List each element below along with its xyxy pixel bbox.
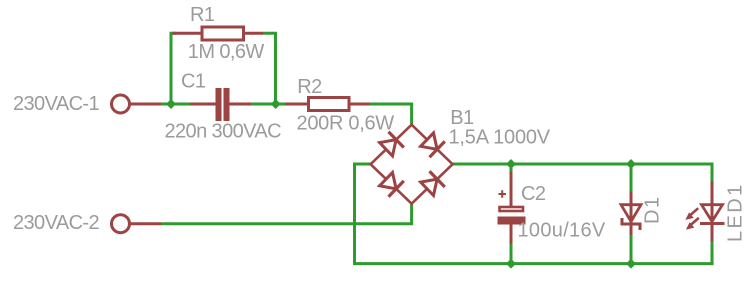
wire main row segment junction2 [251, 103, 286, 106]
wire D1 top [630, 163, 633, 193]
wire main row segment junction1 [161, 103, 191, 106]
junction at node main/junction2 [271, 99, 281, 109]
wire bridge left vertex to bottom rail [355, 164, 714, 264]
svg-text:R2: R2 [297, 76, 322, 98]
svg-text:C2: C2 [521, 183, 546, 205]
terminal 230VAC-1 [112, 95, 130, 113]
plus sign C2 [499, 190, 507, 198]
bridge B1 diamond [371, 125, 453, 204]
pin stubs C1 [191, 103, 252, 106]
svg-text:C1: C1 [181, 71, 206, 93]
svg-text:200R 0,6W: 200R 0,6W [297, 112, 395, 134]
resistor R2 [286, 98, 370, 111]
terminal 230VAC-2 [112, 215, 130, 233]
bridge diode top-left [380, 132, 404, 156]
svg-text:LED1: LED1 [725, 182, 747, 242]
junction bottom rail C2 [506, 259, 516, 269]
junction bottom rail D1 [626, 259, 636, 269]
capacitor C1 [216, 88, 230, 121]
bridge diode bottom-left [380, 172, 404, 196]
svg-text:R1: R1 [190, 4, 215, 26]
wire C2 top [510, 163, 513, 173]
wire D1 bottom [630, 234, 633, 264]
pin stub terminal2 [131, 222, 162, 225]
wire R1 loop left vertical [171, 33, 177, 105]
wire top rail to LED1 [452, 164, 713, 182]
wire C2 bottom [510, 243, 513, 264]
svg-text:100u/16V: 100u/16V [518, 220, 606, 242]
svg-text:220n 300VAC: 220n 300VAC [165, 121, 282, 143]
wire 230VAC-2 row to bridge bottom [161, 203, 412, 224]
wire LED1 bottom [711, 240, 714, 265]
junction top rail D1 [626, 159, 636, 169]
LED arrows [685, 208, 699, 229]
resistor R1 [173, 27, 264, 40]
LED LED1 [700, 181, 725, 241]
bridge diode bottom-right [421, 171, 445, 195]
wire R1 loop right vertical [263, 33, 276, 105]
diode D1 (zener) [621, 192, 642, 236]
junction at node main/junction1 [166, 99, 176, 109]
bridge diode top-right [421, 133, 445, 157]
svg-text:1,5A 1000V: 1,5A 1000V [449, 126, 551, 148]
svg-text:D1: D1 [642, 195, 664, 224]
svg-text:1M 0,6W: 1M 0,6W [188, 41, 265, 63]
svg-text:230VAC-2: 230VAC-2 [13, 212, 99, 234]
wire R2 to bridge top [370, 104, 412, 127]
svg-text:230VAC-1: 230VAC-1 [13, 93, 99, 115]
pin stub terminal1 [131, 103, 162, 106]
capacitor C2 [498, 172, 526, 245]
junction top rail C2 [506, 159, 516, 169]
